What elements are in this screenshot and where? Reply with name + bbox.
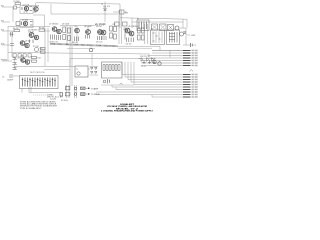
terminal TB1-5 — [183, 60, 198, 62]
speaker LS2 — [168, 25, 174, 31]
harness bend P3-3 — [128, 62, 183, 80]
svg-text:IN 3: IN 3 — [1, 30, 4, 32]
svg-text:R1 220K: R1 220K — [14, 1, 21, 3]
wire x186 vertical — [185, 36, 187, 45]
wire center vertical bus a — [69, 26, 71, 86]
svg-text:C4: C4 — [194, 45, 196, 47]
transistor Q4 — [28, 30, 37, 38]
zener diode CR1 — [103, 6, 111, 10]
wire long horizontal y58.5 — [70, 58, 141, 60]
svg-text:Q1 4.7K: Q1 4.7K — [23, 5, 30, 7]
wire vertical bus x120 — [119, 4, 121, 28]
phone jack J3 — [158, 61, 161, 66]
wire to terminal TB1-1 — [152, 50, 183, 52]
wire long horizontal y52.5 — [8, 53, 150, 55]
wire vertical x147.5 — [147, 24, 149, 44]
transformer T1 — [75, 66, 88, 77]
svg-text:C5: C5 — [2, 77, 4, 79]
resistor R13 — [142, 28, 145, 40]
wire lead P4-2 — [116, 89, 183, 91]
wire relay row lower — [132, 21, 183, 23]
terminal TB1-3 — [183, 55, 198, 57]
terminal P3-3 — [183, 79, 198, 81]
wire horizontal y69.5 — [44, 69, 70, 71]
terminal P3-2 — [183, 76, 198, 78]
diode CR9 — [13, 68, 17, 70]
wire mains run y92.5 — [29, 92, 60, 94]
wire transformer top lead — [69, 59, 71, 67]
transistor Q17 — [25, 60, 29, 64]
resistor R2 — [22, 7, 32, 11]
transistor Q16 — [21, 55, 26, 62]
capacitor C3 — [10, 44, 14, 46]
svg-text:TO AMP: TO AMP — [91, 87, 99, 90]
resistor R19 — [41, 48, 46, 54]
resistor R5 — [39, 28, 46, 32]
wire input lead J1 — [2, 6, 13, 8]
wire top-left row2 lead — [2, 21, 10, 23]
svg-text:.05: .05 — [74, 26, 76, 28]
resistor chain R17 — [113, 24, 117, 39]
diode CR8 — [13, 63, 17, 65]
wire lead P4-4 — [96, 94, 183, 96]
connector J4 — [74, 85, 77, 98]
svg-text:+28V: +28V — [191, 35, 196, 37]
capacitor C4 polarized — [183, 43, 196, 47]
svg-text:220: 220 — [34, 12, 37, 14]
svg-text:Q7 2N3565: Q7 2N3565 — [49, 24, 58, 26]
transistor Q18 — [175, 26, 179, 30]
wire to terminal TB1-7 — [141, 65, 183, 67]
resistor R4 — [13, 28, 20, 32]
harness bend P3-4 — [131, 62, 183, 82]
transistor Q2 — [33, 5, 40, 13]
shield box input stage 2 — [20, 20, 33, 28]
wire vertical x8 — [7, 27, 9, 62]
wire vertical x105 — [104, 2, 106, 23]
shield box input stage 1 — [20, 6, 33, 14]
node tick on top rail — [101, 3, 103, 5]
svg-text:Q12: Q12 — [103, 24, 106, 26]
output jack J5 — [81, 87, 99, 90]
svg-text:T1: T1 — [76, 69, 78, 71]
wire jog P4-1 — [112, 85, 116, 90]
resistor R15 — [68, 28, 71, 41]
resistor R6 — [30, 40, 34, 44]
title block — [101, 103, 154, 113]
svg-text:IN 2: IN 2 — [1, 21, 4, 23]
transistor Q10 — [84, 26, 92, 39]
svg-text:Q6 15K: Q6 15K — [25, 41, 32, 43]
wire Q10 lead — [87, 26, 89, 30]
resistor comb R8 — [51, 35, 61, 41]
svg-text:IN 1: IN 1 — [1, 6, 4, 8]
wire vertical x48 — [47, 28, 49, 62]
drawn-date note — [47, 97, 59, 101]
terminal P4-4 — [183, 94, 198, 96]
svg-text:330 .02: 330 .02 — [72, 42, 77, 44]
resistor R3 — [22, 22, 33, 26]
wire vertical x144.5 — [144, 24, 146, 44]
terminal P4-3 — [183, 91, 198, 93]
wire vertical x14.5 — [14, 57, 16, 70]
value labels under R8 — [49, 42, 77, 44]
notes block — [20, 101, 58, 110]
wire relay row upper — [120, 18, 187, 19]
wire vertical x45 — [44, 28, 46, 66]
wire collector x170 — [169, 50, 171, 58]
resistor R11 — [127, 38, 134, 43]
diode trio CR11-CR13 — [138, 56, 156, 62]
resistor R31 — [95, 22, 127, 26]
transistor Q9 — [62, 24, 79, 33]
ground bus hatched — [50, 44, 118, 46]
wire to terminal TB1-6 — [141, 62, 183, 64]
relay K1 — [137, 18, 149, 30]
wire vertical pair x29 — [28, 87, 30, 93]
capacitor C2 — [16, 22, 20, 26]
svg-text:.01 .01: .01 .01 — [141, 66, 146, 68]
wire feedback-loop top rail — [36, 3, 120, 4]
svg-text:2-14-66: 2-14-66 — [50, 99, 56, 101]
diode CR6 — [184, 32, 187, 34]
wire feedback-loop bottom rail — [51, 13, 118, 15]
power supply filter box — [20, 76, 59, 89]
diode row CR3-CR5 — [13, 54, 31, 58]
wire lead P4-3 — [96, 91, 183, 93]
transistor Q15 — [180, 32, 184, 36]
capacitor plate marks — [22, 80, 56, 82]
wire to terminal TB1-5 — [141, 60, 183, 62]
resistor R14 — [32, 57, 41, 63]
resistor network R7 — [33, 46, 43, 52]
wire horizontal y48.5 — [67, 48, 95, 50]
svg-text:470 2.2K: 470 2.2K — [96, 42, 103, 44]
rectifier bridge CR10 — [90, 67, 99, 76]
capacitor C21 — [10, 32, 14, 37]
regulator resistors — [103, 65, 120, 71]
harness bend P3-5 — [134, 62, 183, 85]
svg-text:Q10 6.8K: Q10 6.8K — [84, 26, 92, 28]
capacitor C17 — [124, 28, 127, 40]
transistor Q11 — [95, 24, 105, 44]
wire center vertical bus b — [71, 26, 73, 86]
potentiometer R18 — [89, 47, 93, 52]
wire vertical x132 — [131, 18, 133, 28]
terminal P3-5 — [183, 84, 198, 86]
wire vertical x67 — [66, 25, 68, 44]
terminal TB1-7 — [183, 65, 198, 67]
junction caret — [120, 83, 123, 85]
wire vertical x12 — [11, 31, 13, 57]
output jack J6 — [81, 93, 100, 96]
wire to terminal TB1-2 — [152, 52, 183, 54]
fuse F1 — [65, 85, 70, 98]
wire to terminal TB1-3 — [148, 55, 183, 57]
regulator board box — [102, 62, 123, 78]
switch S2 section box — [167, 30, 180, 45]
svg-text:R7 2.2K: R7 2.2K — [33, 46, 40, 48]
transistor Q12 — [101, 24, 106, 40]
resistor comb Q9 emitter — [75, 37, 79, 42]
terminal P3-4 — [183, 81, 198, 83]
wire horizontal y26.5 — [8, 26, 50, 28]
svg-text:1K 560 4.7K: 1K 560 4.7K — [49, 42, 59, 44]
transistor Q13 — [125, 26, 138, 33]
switch S1 section box — [151, 29, 165, 45]
lamp DS1 — [152, 24, 158, 30]
harness bend P3-2 — [125, 62, 183, 77]
svg-text:CR1 12V: CR1 12V — [103, 6, 111, 8]
wire second continuation — [118, 47, 152, 49]
resistor R1 — [14, 1, 21, 4]
wire y85 run — [101, 84, 134, 86]
svg-text:22K 1M: 22K 1M — [96, 26, 102, 28]
phone jack J2 — [153, 58, 156, 64]
svg-text:Q3 56K: Q3 56K — [22, 20, 29, 22]
wire bend to P4-5 — [151, 95, 153, 97]
svg-text:C6 C7 C8 C9 C10: C6 C7 C8 C9 C10 — [30, 72, 44, 74]
svg-text:R14: R14 — [38, 58, 41, 60]
terminal TB1-4 — [183, 57, 198, 59]
resistor R10 — [63, 27, 66, 40]
svg-text:TO SPKR: TO SPKR — [91, 94, 100, 96]
svg-text:C18 C19 C20: C18 C19 C20 — [140, 56, 150, 58]
wire link y31 — [44, 30, 50, 32]
wire vertical x187 corner — [186, 19, 188, 28]
wire input lead stage3 — [2, 44, 10, 46]
wire vertical x183 — [182, 19, 184, 28]
wire vertical x119 pair — [119, 10, 122, 44]
transistor Q7 — [49, 24, 58, 32]
speaker LS1 — [160, 24, 167, 31]
capacitor C5 — [2, 75, 13, 82]
wire to terminal TB1-4 — [148, 57, 183, 59]
wire input lead stage2 — [2, 30, 14, 32]
terminal P4-1 — [183, 86, 198, 88]
transistor Q1 — [23, 5, 30, 14]
svg-text:2000MF: 2000MF — [7, 80, 13, 82]
diode CR7 — [13, 58, 17, 60]
svg-text:Q16: Q16 — [21, 55, 24, 57]
wire vertical x13 — [12, 7, 14, 22]
harness bend P3-1 — [122, 62, 183, 75]
transistor Q5 — [34, 35, 38, 39]
svg-text:K1: K1 — [137, 18, 139, 20]
bus junction dots — [54, 44, 111, 47]
wire feedback-loop left side — [50, 4, 52, 14]
wire Q9 leads — [76, 26, 78, 44]
filter capacitor bank — [23, 78, 56, 87]
wire ground bus continuation — [118, 46, 183, 50]
svg-text:Q2 10K: Q2 10K — [33, 5, 40, 7]
svg-text:R17: R17 — [113, 24, 116, 26]
connector caret mark — [190, 70, 194, 72]
wire lead P4-1 — [112, 86, 183, 88]
transistor Q6A — [25, 43, 29, 47]
svg-text:F1 1A J4: F1 1A J4 — [61, 99, 68, 102]
svg-text:VTVM, NO SIGNAL INPUT.: VTVM, NO SIGNAL INPUT. — [20, 107, 42, 110]
svg-text:R30: R30 — [125, 12, 128, 14]
wire output to terminal — [180, 28, 190, 35]
wire input lead stage4 — [2, 60, 12, 62]
wire stage4 links — [17, 58, 32, 60]
wire dashed y95 — [33, 94, 50, 96]
terminal P4-2 — [183, 89, 198, 91]
wire y25.5 run — [60, 25, 95, 27]
svg-text:R5 12K: R5 12K — [39, 28, 46, 30]
wire bridge feed — [91, 54, 93, 67]
wire Q2 collector up — [35, 3, 37, 7]
resistor chain R16 — [110, 26, 113, 38]
transistor Q3 — [22, 20, 29, 26]
capacitor C13 — [103, 79, 109, 84]
wire vertical pair x31 — [30, 87, 32, 93]
wire into supply strip — [13, 75, 20, 77]
terminal TB1-2 — [183, 52, 198, 54]
svg-text:PHONO: PHONO — [1, 60, 8, 62]
capacitor trio C14-C16 — [141, 60, 156, 68]
svg-text:Q13 2N3638: Q13 2N3638 — [128, 26, 138, 28]
wire strip bottom drop — [21, 89, 23, 93]
wire lead P4-5 — [152, 96, 183, 98]
plug P5 — [60, 93, 63, 98]
transistor Q8 — [57, 29, 62, 34]
diode CR2 — [113, 10, 128, 14]
terminal TB1-1 — [183, 50, 198, 52]
wire long horizontal y66.5 — [14, 66, 75, 68]
svg-text:100 100: 100 100 — [126, 43, 132, 45]
terminal P3-1 — [183, 74, 198, 76]
terminal P4-5 — [183, 96, 198, 98]
wire box1 exit — [33, 15, 45, 27]
wire transformer secondary — [88, 68, 90, 70]
svg-text:R4 47K: R4 47K — [13, 28, 20, 30]
capacitor C1 — [14, 6, 21, 9]
terminal TB1-6 — [183, 62, 198, 64]
transistor Q6 — [20, 41, 31, 46]
svg-text:Q4 2N3565: Q4 2N3565 — [28, 30, 37, 32]
resistor R12 — [138, 28, 141, 40]
svg-text:2 CHANNEL PREAMPLIFIER AND POW: 2 CHANNEL PREAMPLIFIER AND POWER SUPPLY — [101, 110, 154, 113]
transistor Q14 — [129, 31, 134, 36]
